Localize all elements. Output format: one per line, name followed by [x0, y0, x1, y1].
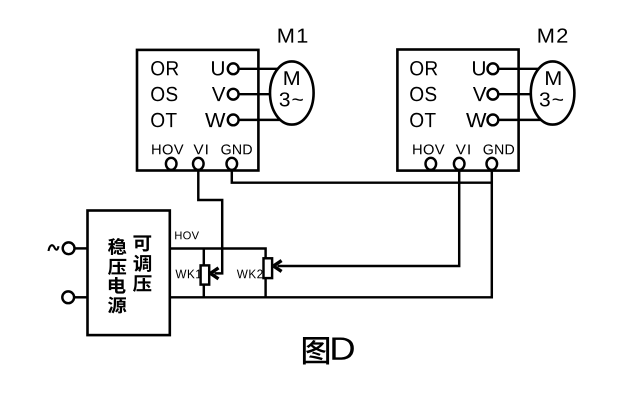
- wire U/V/W leads from M1 driver to motor: [239, 69, 292, 120]
- wire M2 VI to WK2 wiper: [278, 171, 460, 266]
- inverter box M2 driver: [397, 50, 518, 171]
- wire WK2 bottom to GND bus: [264, 278, 266, 297]
- terminal circle V of M1: [228, 89, 239, 100]
- wire AC top terminal to supply box: [75, 247, 89, 249]
- arrowhead WK1 wiper: [210, 268, 218, 279]
- arrowhead WK2 wiper: [273, 261, 281, 272]
- motor M1 (M 3~): [270, 61, 314, 124]
- wire WK1 bottom to GND bus: [203, 285, 205, 298]
- terminal label U of M2 driver: [473, 61, 485, 75]
- terminal circle GND of M2: [487, 158, 498, 170]
- wire M1 GND to GND bus: [232, 171, 492, 183]
- terminal circle HOV of M2: [426, 158, 437, 170]
- terminal circle U of M1: [228, 63, 239, 74]
- potentiometer WK1 body: [201, 265, 210, 284]
- terminal circle GND of M1: [227, 158, 238, 170]
- terminal circle W of M2: [488, 115, 499, 126]
- power supply box (adjustable regulated supply): [88, 211, 170, 336]
- terminal circle VI of M2: [454, 158, 465, 170]
- label HOV (supply output): [175, 231, 199, 239]
- terminal label W of M1 driver: [205, 113, 225, 127]
- power supply label 可调压 (vertical): [133, 235, 152, 292]
- inverter box M1 driver: [137, 50, 258, 171]
- label M2: [538, 28, 567, 42]
- terminal circle HOV of M1: [166, 158, 177, 170]
- AC input terminal circle (bottom): [62, 291, 74, 303]
- motor M2 (M 3~): [531, 61, 575, 124]
- wire AC bottom terminal to supply box: [74, 296, 88, 298]
- terminal label OT of M2 driver: [410, 113, 435, 128]
- terminal label V of M1 driver: [212, 87, 225, 101]
- terminal label OR of M2 driver: [410, 61, 437, 76]
- terminal label U of M1 driver: [212, 61, 224, 75]
- power supply label 稳压电源 (vertical): [108, 238, 127, 313]
- caption 图D: [303, 337, 354, 365]
- GND bottom bus wire from supply to M2 GND: [170, 171, 492, 298]
- terminal circle U of M2: [488, 63, 499, 74]
- terminal label HOV of M2 driver: [413, 144, 444, 154]
- terminal circle W of M1: [228, 115, 239, 126]
- terminal label VI of M2 driver: [456, 145, 470, 155]
- wire U/V/W leads from M2 driver to motor: [498, 69, 552, 120]
- terminal label GND of M1 driver: [221, 144, 252, 154]
- wire M1 VI to WK1 wiper: [198, 171, 222, 274]
- terminal label W of M2 driver: [466, 113, 486, 127]
- label WK2: [237, 270, 263, 279]
- label M1: [278, 29, 307, 43]
- terminal label OT of M1 driver: [151, 113, 176, 128]
- terminal label OR of M1 driver: [151, 61, 178, 76]
- terminal circle V of M2: [488, 89, 499, 100]
- terminal label OS of M1 driver: [151, 87, 177, 102]
- node HOV output wire from supply to WK2 top: [170, 249, 266, 259]
- terminal label OS of M2 driver: [410, 87, 436, 102]
- potentiometer WK2 body: [264, 258, 273, 278]
- label WK1: [175, 270, 201, 279]
- AC input terminal circle (top): [63, 242, 75, 254]
- terminal circle VI of M1: [193, 158, 204, 170]
- AC input symbol ~: [49, 245, 59, 251]
- terminal label HOV of M1 driver: [152, 144, 183, 154]
- terminal label VI of M1 driver: [193, 145, 207, 155]
- terminal label GND of M2 driver: [484, 144, 515, 154]
- wire HOV branch to WK1 top: [203, 249, 205, 266]
- terminal label V of M2 driver: [473, 87, 486, 101]
